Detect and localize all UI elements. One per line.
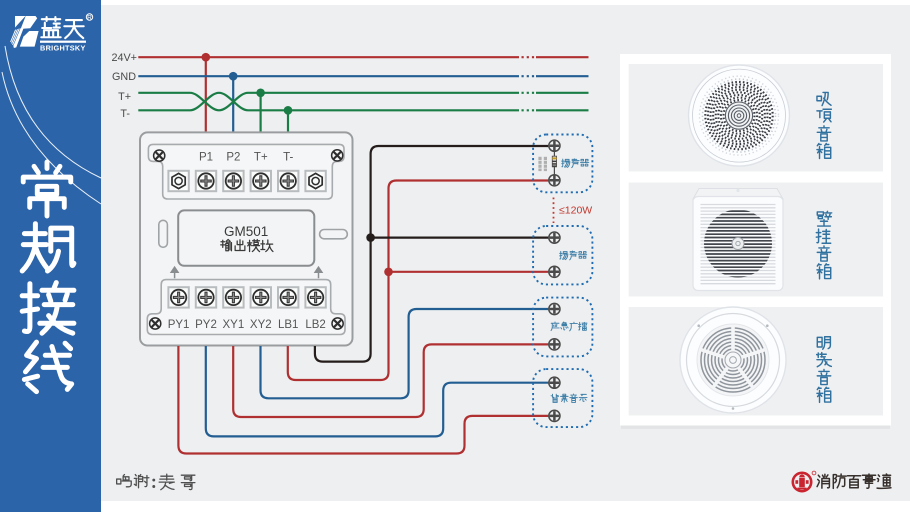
terminal + of 背景音乐 [549, 377, 560, 388]
terminal screw PY1 [168, 287, 188, 307]
label 扬声器 (box 2) [560, 251, 568, 259]
sidebar decorative arc 1 [5, 46, 101, 178]
wire LB2 to speaker top terminals [315, 146, 548, 362]
junction dot GND [229, 72, 238, 81]
svg-text:P2: P2 [226, 152, 240, 164]
up arrow left [171, 267, 178, 278]
svg-text:R: R [87, 14, 92, 21]
background music box (背景音乐) [533, 369, 592, 427]
brand registered mark [86, 14, 92, 20]
wire drop to T- terminal [287, 110, 289, 172]
resistor value label 终端电阻 120KΩ (tiny) [538, 157, 547, 171]
module GM501 outline [140, 132, 353, 345]
wire branch LB1 to 扬声器2 - terminal [389, 271, 549, 273]
brand logo B mark [11, 16, 39, 48]
svg-text:GM501: GM501 [224, 224, 268, 239]
credit text 鸣谢：表哥 [117, 475, 132, 487]
brand name 天 [64, 20, 83, 38]
fire hydrant logo 消防百事通 [793, 471, 816, 491]
terminal nut left (top strip) [168, 171, 188, 191]
terminal + of 应急广播 [549, 303, 560, 314]
terminal screw P1 [196, 171, 216, 191]
speaker load box 1 (扬声器 with 终端电阻) [533, 135, 592, 193]
corner screw top-right [332, 150, 343, 161]
svg-text:LB1: LB1 [278, 319, 298, 331]
label 壁挂音箱 [817, 211, 831, 226]
svg-text:XY2: XY2 [250, 319, 272, 331]
terminal screw LB2 [305, 287, 325, 307]
wire drop GND to P2 [232, 76, 234, 172]
terminal screw T+ [251, 171, 271, 191]
wire XY1 to 应急广播 - terminal [233, 344, 548, 417]
sidebar decorative arc 2 [2, 72, 101, 204]
junction dot LB1 branch [384, 268, 393, 277]
label 应急广播 [551, 322, 559, 331]
label 明装音箱 [817, 337, 830, 349]
svg-text:T+: T+ [254, 152, 268, 164]
module top terminal strip [148, 144, 344, 199]
emergency broadcast box (应急广播) [533, 298, 592, 357]
label 背景音乐 [551, 394, 558, 402]
label 吸顶音箱 [817, 92, 831, 105]
wire PY2 to 背景音乐 + terminal [206, 346, 549, 436]
resistor 终端电阻 120KΩ (end-of-line resistor) [552, 152, 556, 174]
wire XY2 to 应急广播 + terminal [261, 309, 549, 398]
terminal screw PY2 [196, 287, 216, 307]
sidebar background [0, 0, 101, 512]
svg-text:≤120W: ≤120W [559, 205, 592, 217]
svg-text:GND: GND [112, 71, 136, 83]
svg-text:BRIGHTSKY: BRIGHTSKY [40, 44, 86, 53]
wire LB1 to speaker bottom terminals [288, 181, 549, 381]
terminal screw XY1 [223, 287, 243, 307]
wire PY1 to 背景音乐 - terminal [178, 346, 548, 454]
svg-text:LB2: LB2 [305, 319, 325, 331]
sidebar title 规 [22, 224, 74, 271]
speaker load box 2 (扬声器) [533, 226, 592, 284]
rail 24V+ [138, 56, 519, 58]
svg-text:PY2: PY2 [195, 319, 217, 331]
terminal screw LB1 [278, 287, 298, 307]
terminal screw T- [278, 171, 298, 191]
sidebar title 常 [23, 162, 71, 216]
svg-text:T-: T- [120, 108, 130, 120]
svg-text:T+: T+ [118, 91, 131, 103]
wire drop 24V+ to P1 [205, 57, 207, 172]
text 输出模块 [221, 240, 232, 251]
svg-text:T-: T- [283, 152, 293, 164]
terminal + of speaker 1 [549, 140, 560, 151]
up arrow right [315, 267, 322, 278]
brand text 消防百事通 [817, 474, 829, 488]
svg-text:XY1: XY1 [223, 319, 245, 331]
sidebar title 线 [24, 342, 71, 392]
junction dot T- [284, 106, 293, 115]
terminal screw P2 [223, 171, 243, 191]
corner screw bottom-right [332, 318, 343, 329]
bottom white strip [101, 501, 910, 512]
terminal - of 背景音乐 [549, 410, 560, 421]
label 扬声器 (box 1) [562, 159, 570, 167]
left slot [159, 220, 168, 247]
wire branch LB2 to 扬声器2 + terminal [371, 237, 549, 239]
corner screw top-left [154, 150, 165, 161]
power note dotted line [553, 198, 555, 224]
junction dot LB2 branch [366, 233, 375, 242]
terminal - of speaker 2 [549, 266, 560, 277]
ceiling speaker image 吸顶音箱 [689, 65, 790, 166]
svg-text:P1: P1 [199, 152, 213, 164]
terminal screw XY2 [251, 287, 271, 307]
right slot [320, 230, 348, 239]
terminal + of speaker 2 [549, 232, 560, 243]
rail GND [138, 75, 519, 77]
module bottom terminal strip [147, 280, 345, 335]
junction dot 24V+ [202, 53, 211, 62]
sidebar title 接 [22, 283, 74, 334]
center label box GM501 [178, 210, 314, 265]
corner screw bottom-left [150, 318, 161, 329]
wire drop to T+ terminal [260, 93, 262, 172]
terminal nut right (top strip) [305, 171, 325, 191]
terminal - of speaker 1 [549, 175, 560, 186]
junction dot T+ [256, 89, 265, 98]
svg-text:PY1: PY1 [168, 319, 190, 331]
wall-mount speaker image 壁挂音箱 [693, 189, 783, 291]
terminal - of 应急广播 [549, 339, 560, 350]
rail T+ with twisted pair crossing [138, 93, 519, 111]
svg-text:24V+: 24V+ [111, 52, 137, 64]
rail T- with twisted pair crossing [138, 93, 519, 111]
product panel (white) [621, 426, 890, 429]
surface-mount speaker image 明装音箱 [680, 307, 786, 413]
brand name 蓝 [41, 17, 60, 37]
brand underline [40, 41, 86, 43]
